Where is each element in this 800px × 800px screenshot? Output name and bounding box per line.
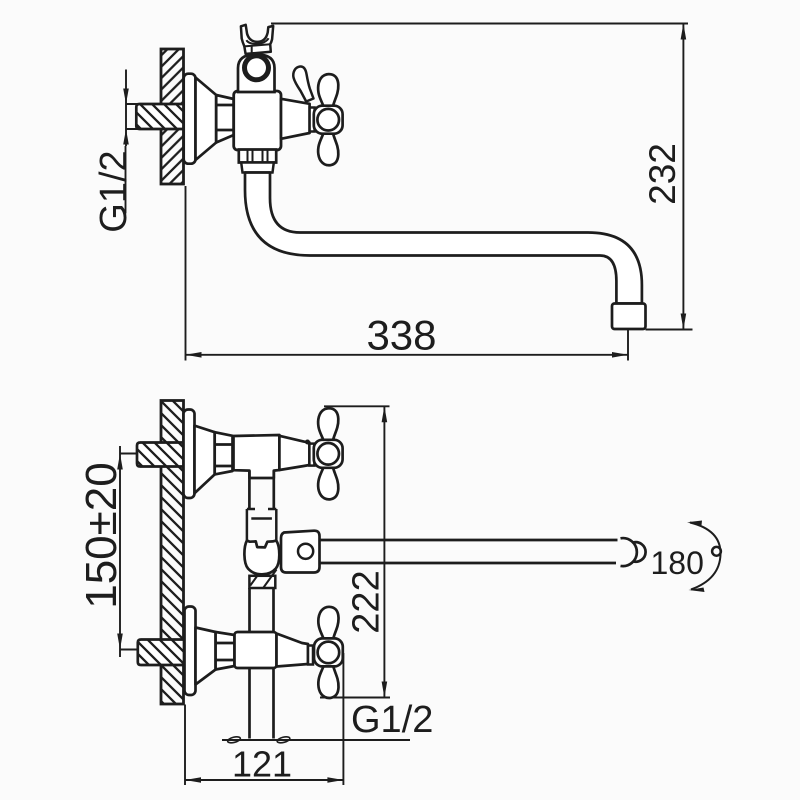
svg-text:121: 121 — [232, 744, 292, 785]
dimension 338 arrows — [186, 352, 629, 358]
extension line left (121) — [184, 705, 186, 786]
upper valve body — [234, 435, 280, 478]
leader hook right — [277, 736, 291, 744]
upper escutcheon base plate — [184, 410, 195, 499]
dimension line 222 — [383, 406, 385, 697]
lower escutcheon cone — [196, 628, 216, 685]
diverter ring — [245, 56, 269, 80]
svg-text:338: 338 — [366, 312, 436, 359]
svg-text:G1/2: G1/2 — [93, 150, 135, 232]
extension line left (338) — [185, 186, 187, 361]
dimension 222 arrows — [382, 406, 388, 697]
shower pipe lower segment — [250, 668, 274, 739]
swivel spout tube (front view) — [320, 540, 618, 563]
spout nut ribs — [248, 150, 268, 163]
wall section (front view) — [161, 401, 184, 705]
rotation arc arrowheads — [687, 521, 705, 593]
lower handle bonnet — [277, 634, 309, 667]
shower pipe upper segment — [250, 588, 274, 632]
upper inlet pipe (front view) — [137, 443, 184, 467]
dimension G1/2 arrows — [123, 89, 129, 145]
shower bracket fork — [241, 25, 273, 54]
spout mount block — [281, 531, 320, 573]
hatched joint section below ball — [249, 570, 276, 589]
svg-text:150±20: 150±20 — [77, 462, 126, 609]
svg-text:222: 222 — [346, 570, 388, 633]
dimension line 121 — [185, 779, 343, 781]
extension line right (338) from aerator — [627, 329, 629, 361]
upper connector nut — [215, 432, 233, 474]
spout tube end cap arcs — [621, 538, 637, 566]
dimension 150±20 ticks — [120, 454, 138, 650]
dimension G1/2 line — [125, 70, 127, 147]
svg-text:232: 232 — [642, 143, 683, 205]
dimension G1/2 (pipe thread, side view): ticks — [126, 104, 154, 129]
diverter column with dome top — [238, 54, 275, 92]
body column below upper valve — [249, 471, 273, 509]
upper handle stem — [309, 444, 314, 466]
handle bonnet (side view) — [281, 99, 310, 139]
lower connector nut — [216, 632, 235, 670]
svg-text:180: 180 — [651, 545, 704, 581]
wall section (side view) — [161, 49, 184, 184]
extension line bottom (232) from aerator — [646, 329, 693, 331]
spout nut (ribbed) — [239, 150, 276, 163]
dimension 150±20 arrows — [117, 454, 123, 650]
ball clamp collar — [247, 509, 276, 541]
fork inner tick — [251, 45, 253, 52]
upper cross handle — [314, 408, 343, 499]
lower cross handle — [314, 607, 343, 698]
extension line bottom (222) — [320, 697, 390, 699]
handle stem (side view) — [310, 108, 315, 132]
leader hook left — [227, 736, 241, 744]
lower escutcheon base plate — [185, 607, 196, 696]
spout collar — [241, 163, 274, 173]
svg-text:G1/2: G1/2 — [351, 699, 433, 741]
upper escutcheon cone — [195, 426, 215, 494]
dimension 232 arrows — [681, 24, 687, 330]
upper handle bonnet — [279, 436, 309, 470]
label G1/2 underline — [125, 146, 127, 214]
fork inner slot line — [246, 38, 268, 44]
extension line right (121) — [342, 653, 344, 785]
inlet pipe (side view, hatched section) — [136, 104, 183, 129]
lower inlet pipe (front view) — [138, 640, 184, 666]
extension line top (222) — [324, 405, 390, 407]
escutcheon flange base plate (side view) — [184, 74, 196, 164]
lower valve body — [235, 632, 277, 668]
handle rear lobe (tilted) — [293, 66, 313, 101]
ball joint with crown notch — [244, 541, 279, 575]
rotation arc 180deg — [690, 523, 721, 590]
cross handle (side view) — [314, 74, 343, 165]
aerator — [612, 304, 646, 330]
dimension line 232 — [682, 24, 684, 330]
lower handle stem — [308, 646, 313, 665]
upper bonnet screw dot — [306, 440, 310, 444]
escutcheon cone (side view) — [196, 78, 217, 161]
extension line top (232) — [271, 23, 688, 25]
connector nut (side view) — [216, 95, 234, 143]
degree symbol — [712, 547, 721, 556]
dimension line 150±20 — [119, 446, 121, 657]
dimension 121 arrows — [185, 777, 343, 783]
fork collar line — [244, 44, 270, 46]
shower outlet leader line with G1/2 underline — [222, 739, 410, 741]
spout S-tube — [245, 173, 642, 304]
valve body (side view) — [234, 91, 281, 150]
spout mount hole — [298, 544, 313, 559]
dimension line 338 — [186, 354, 629, 356]
